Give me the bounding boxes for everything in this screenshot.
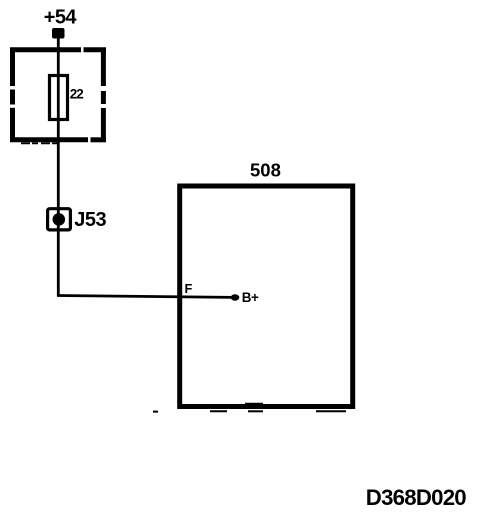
scan thickening on 508 bottom edge [245, 403, 263, 405]
svg-text:B+: B+ [242, 290, 259, 305]
fuse box (dashed border) [10, 48, 106, 143]
svg-text:+54: +54 [44, 6, 78, 28]
svg-text:J53: J53 [74, 209, 106, 231]
wire corner to B+ [57, 296, 233, 298]
svg-text:22: 22 [70, 87, 83, 102]
component 508 box [180, 186, 353, 407]
terminal B+ dot [231, 294, 240, 300]
svg-text:D368D020: D368D020 [366, 485, 466, 510]
wire +54 down to corner [57, 36, 60, 296]
terminal +54 [52, 28, 65, 39]
svg-text:508: 508 [250, 160, 281, 181]
connector J53 contact dot [53, 213, 66, 226]
scan shadow under 508 box [153, 410, 346, 412]
connector J53 box [48, 209, 71, 230]
svg-text:F: F [185, 281, 193, 296]
scan shadow under fuse box [21, 142, 59, 144]
fuse 22 body [50, 76, 68, 120]
